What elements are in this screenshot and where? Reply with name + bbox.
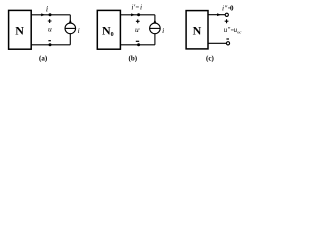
minus sign (c) bbox=[226, 38, 229, 40]
source direction arrow (b) bbox=[154, 19, 157, 22]
network box N0 (b) bbox=[97, 10, 120, 49]
plus sign (a) bbox=[48, 19, 52, 23]
svg-text:i: i bbox=[46, 5, 48, 14]
svg-text:i′=i: i′=i bbox=[131, 3, 142, 12]
network box N (a) bbox=[9, 10, 32, 49]
wire source lead lower (a) bbox=[69, 34, 71, 45]
node dot bottom (a) bbox=[49, 43, 52, 46]
minus sign (b) bbox=[136, 40, 139, 42]
current arrow on top wire (b) bbox=[131, 13, 135, 16]
current source circle (a) bbox=[65, 23, 76, 34]
node dot bottom (b) bbox=[137, 43, 140, 46]
svg-text:(b): (b) bbox=[129, 55, 138, 63]
wire top (b) bbox=[120, 14, 154, 16]
wire top (c) bbox=[208, 14, 225, 16]
current source bar (b) bbox=[150, 27, 161, 29]
wire top (a) bbox=[31, 14, 70, 16]
minus sign (a) bbox=[48, 40, 51, 42]
network box N (c) bbox=[186, 11, 208, 49]
wire bottom (a) bbox=[31, 44, 70, 46]
current arrow on top wire (a) bbox=[41, 13, 45, 16]
wire source lead upper (b) bbox=[154, 15, 156, 23]
svg-text:N: N bbox=[193, 23, 202, 37]
svg-text:u: u bbox=[48, 25, 52, 34]
current source circle (b) bbox=[150, 23, 161, 34]
plus sign (b) bbox=[136, 19, 140, 23]
svg-text:(c): (c) bbox=[206, 55, 214, 63]
svg-text:i: i bbox=[78, 26, 80, 35]
node dot top (b) bbox=[137, 13, 140, 16]
source direction arrow (a) bbox=[69, 19, 72, 22]
terminal bottom (c) bbox=[226, 42, 229, 45]
svg-text:i″=0: i″=0 bbox=[222, 3, 234, 12]
wire bottom (b) bbox=[120, 44, 154, 46]
plus sign (c) bbox=[225, 19, 229, 23]
svg-text:(a): (a) bbox=[39, 55, 48, 63]
wire bottom (c) bbox=[208, 42, 226, 44]
svg-text:i: i bbox=[162, 26, 164, 35]
terminal top (c) bbox=[225, 13, 228, 16]
wire source lead lower (b) bbox=[154, 34, 156, 45]
current arrow on top wire (c) bbox=[217, 13, 221, 16]
current source bar (a) bbox=[65, 27, 76, 29]
svg-text:N: N bbox=[15, 24, 24, 38]
wire source lead upper (a) bbox=[69, 15, 71, 23]
node dot top (a) bbox=[49, 13, 52, 16]
